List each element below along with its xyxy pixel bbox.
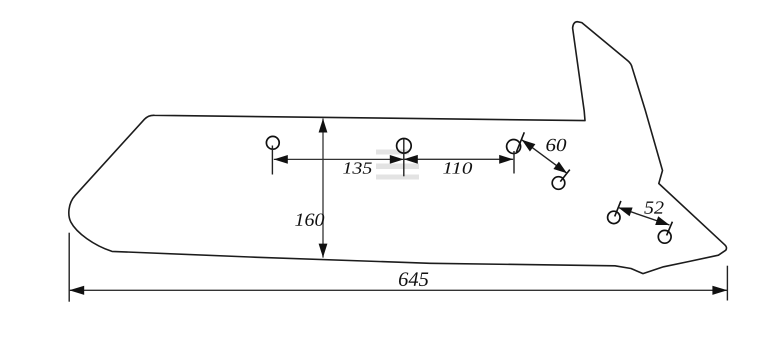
hole circle C5 xyxy=(608,211,620,223)
C2 extension line xyxy=(403,139,405,176)
dim 110 right arrow xyxy=(499,155,513,164)
dim 110 line xyxy=(404,158,513,160)
C3 extension line xyxy=(513,151,515,174)
dim 60 line xyxy=(522,140,567,174)
dim 645 line xyxy=(69,289,727,291)
dim 160 line xyxy=(322,119,324,258)
svg-text:52: 52 xyxy=(644,199,664,219)
svg-text:135: 135 xyxy=(342,159,372,178)
dim 645 right arrow xyxy=(712,286,727,295)
hole circle C4 xyxy=(552,177,565,190)
dim 110 left arrow xyxy=(404,155,418,164)
hole circle C2 xyxy=(397,139,412,154)
dim 645 right extension xyxy=(726,266,728,301)
dim 160 bottom arrow xyxy=(319,244,328,258)
svg-text:60: 60 xyxy=(545,136,567,156)
dim 160 top arrow xyxy=(319,119,328,133)
watermark xyxy=(376,150,419,180)
C5 oblique tick for dim 52 xyxy=(615,201,621,217)
svg-text:160: 160 xyxy=(294,211,325,231)
dim 52 left arrow xyxy=(618,208,632,217)
hole circle C1 xyxy=(266,136,279,149)
dim 52 right arrow xyxy=(655,216,669,225)
dim 60 upper arrow xyxy=(522,140,536,152)
dim 135 line xyxy=(274,158,404,160)
part outline (plow share blade) xyxy=(69,22,727,274)
svg-text:645: 645 xyxy=(398,269,429,291)
C1 extension line xyxy=(271,146,273,175)
dim 135 left arrow xyxy=(274,155,288,164)
dim 135 right arrow xyxy=(390,155,404,164)
hole circle C3 xyxy=(507,140,521,154)
C4 oblique tick for dim 60 xyxy=(560,170,570,182)
dim 645 left extension xyxy=(68,233,70,302)
C3 oblique tick for dim 60 xyxy=(516,132,524,152)
dim 60 lower arrow xyxy=(553,162,567,174)
hole circle C6 xyxy=(658,230,671,243)
svg-text:110: 110 xyxy=(442,159,473,178)
dim 52 line xyxy=(618,208,669,226)
C6 oblique tick for dim 52 xyxy=(667,222,673,236)
dim 645 left arrow xyxy=(69,286,84,295)
